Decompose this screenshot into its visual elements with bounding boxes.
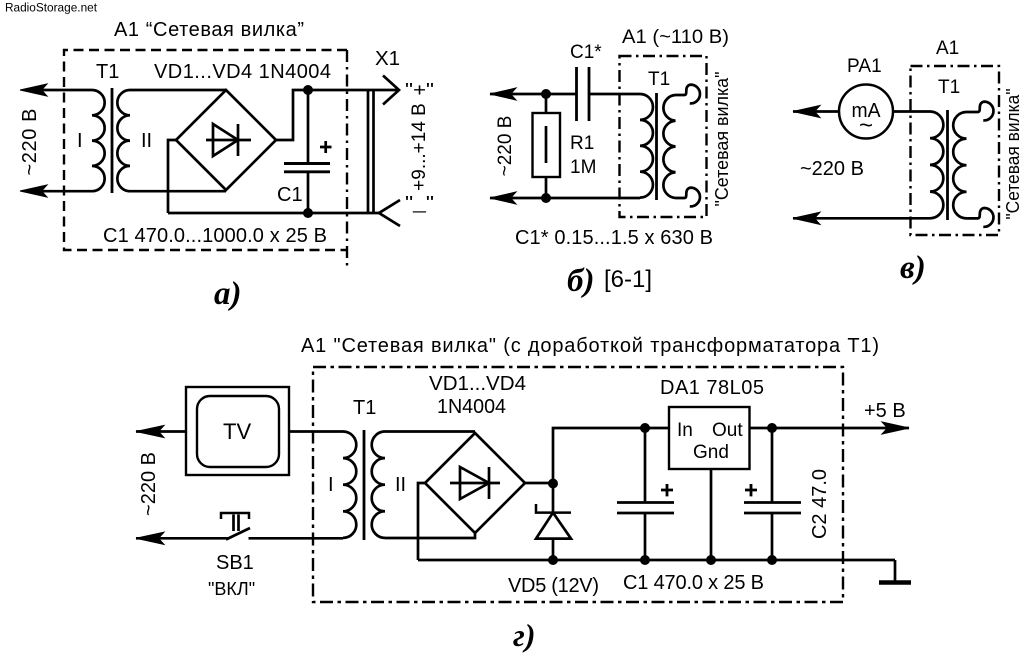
svg-text:I: I — [77, 130, 83, 152]
svg-text:"_": "_" — [405, 193, 434, 214]
svg-text:C1* 0.15...1.5 x 630 В: C1* 0.15...1.5 x 630 В — [515, 227, 713, 249]
svg-text:А1 (~110 В): А1 (~110 В) — [622, 27, 729, 48]
bridge diode symbol (circuit a) — [206, 124, 251, 156]
svg-text:VD1...VD4 1N4004: VD1...VD4 1N4004 — [154, 61, 331, 83]
svg-text:в): в) — [900, 250, 926, 286]
svg-text:А1 “Сетевая вилка”: А1 “Сетевая вилка” — [114, 19, 304, 41]
junction dot bridge plus node — [548, 479, 558, 489]
wire bridge plus: right corner to VD5 node — [525, 482, 553, 485]
svg-text:~220 В: ~220 В — [138, 452, 160, 516]
wire bottom to switch — [136, 537, 229, 540]
connector X1 boundary line (dash-dot) — [346, 50, 348, 268]
transformer T1 core (circuit g) — [363, 430, 366, 540]
secondary bottom hook (circuit b) — [676, 188, 700, 207]
junction dot top (circuit b) — [541, 89, 551, 99]
svg-text:II: II — [395, 474, 406, 496]
wire bridge plus output: right corner up to top rail — [276, 90, 308, 140]
svg-text:"+": "+" — [405, 80, 434, 100]
junction dot minus node (circuit a) — [303, 208, 313, 218]
svg-text:+9...+14 В: +9...+14 В — [409, 103, 430, 191]
wire secondary bottom to bridge — [385, 532, 475, 538]
svg-text:г): г) — [513, 617, 535, 653]
svg-text:Out: Out — [712, 420, 743, 441]
transformer T1 secondary winding (circuit v) — [953, 112, 966, 218]
wire bottom rail (circuit b) — [490, 197, 640, 200]
svg-text:RadioStorage.net: RadioStorage.net — [5, 1, 98, 15]
ground symbol — [879, 560, 911, 583]
transformer T1 primary winding (circuit g) — [343, 432, 356, 538]
svg-text:T1: T1 — [96, 61, 119, 83]
wire from C1* into box — [589, 93, 640, 96]
plug arrow top (circuit b) — [490, 88, 516, 100]
wire VD5 node up to +5V rail (In side) — [553, 428, 669, 483]
zener diode VD5 — [536, 483, 571, 560]
plug arrow top (circuit a) — [20, 84, 47, 96]
svg-text:"Сетевая вилка": "Сетевая вилка" — [711, 72, 732, 207]
svg-text:1M: 1M — [570, 157, 596, 178]
TV set box — [186, 387, 289, 475]
svg-text:C1 470.0...1000.0 x 25 В: C1 470.0...1000.0 x 25 В — [103, 225, 327, 247]
svg-text:R1: R1 — [570, 133, 594, 154]
svg-text:Gnd: Gnd — [693, 442, 729, 463]
switch SB1 (push button) — [221, 513, 250, 540]
svg-text:C1: C1 — [277, 184, 303, 206]
wire bridge minus output: left corner down to bottom rail — [168, 140, 176, 213]
wire bottom rail (circuit a) — [168, 212, 379, 215]
svg-text:X1: X1 — [375, 47, 400, 70]
plug arrow top (circuit g) — [136, 425, 164, 437]
svg-text:+5 В: +5 В — [864, 400, 906, 422]
capacitor C1 (circuit g) — [617, 428, 674, 560]
resistor R1 (circuit b) — [533, 94, 561, 198]
diode bridge diamond (circuit g) — [425, 433, 525, 533]
svg-text:а): а) — [214, 276, 242, 312]
junction dot bottom (circuit b) — [541, 193, 551, 203]
enclosure box A1 (dash-dot) circuit b — [620, 56, 707, 217]
connector X1 contact bars — [368, 90, 374, 213]
transformer T1 secondary winding II (circuit g) — [372, 432, 385, 538]
wire TV to transformer (top) — [289, 430, 343, 433]
milliammeter PA1 circle — [839, 85, 893, 139]
output arrow +5 В — [882, 422, 909, 434]
svg-text:C1*: C1* — [570, 42, 602, 63]
svg-text:II: II — [141, 130, 152, 152]
wire arrow to TV — [136, 430, 186, 433]
X1 minus pin socket (open, left) — [379, 200, 400, 226]
wire Gnd pin down — [710, 469, 713, 560]
svg-text:C1 470.0 x 25 В: C1 470.0 x 25 В — [623, 572, 764, 594]
secondary top hook (circuit v) — [967, 102, 994, 121]
svg-text:А1 "Сетевая вилка" (с доработк: А1 "Сетевая вилка" (с доработкой трансфо… — [301, 335, 879, 357]
svg-text:I: I — [328, 474, 334, 496]
wire top rail (circuit b) — [490, 93, 576, 96]
capacitor C1* plates — [577, 67, 590, 121]
transformer T1 primary winding (circuit b) — [640, 94, 653, 198]
wire bottom rail (circuit v) — [793, 217, 930, 220]
plug arrow bottom (circuit b) — [490, 192, 516, 204]
svg-text:VD1...VD4: VD1...VD4 — [429, 373, 526, 395]
plus sign of C1 (circuit a) — [320, 141, 332, 153]
svg-text:VD5 (12V): VD5 (12V) — [508, 575, 599, 597]
junction dot Gnd bottom — [706, 555, 716, 565]
svg-text:~220 В: ~220 В — [19, 109, 41, 176]
capacitor C1 (circuit a, polarized) — [284, 90, 330, 213]
transformer T1 secondary winding (circuit b) — [663, 95, 675, 198]
wire bottom minus rail (circuit g) — [418, 559, 895, 562]
enclosure box A1 (dash-dot) circuit v — [911, 66, 1000, 235]
transformer T1 core (circuit v) — [946, 110, 949, 220]
svg-text:[6-1]: [6-1] — [604, 266, 652, 293]
wire arrow to meter — [793, 110, 839, 113]
junction dot C1 top — [640, 423, 650, 433]
junction dot C2 bottom — [767, 555, 777, 565]
svg-text:T1: T1 — [938, 77, 960, 98]
svg-text:C2 47.0: C2 47.0 — [809, 469, 831, 539]
svg-text:TV: TV — [223, 419, 251, 444]
plug arrow top (circuit v) — [793, 105, 820, 117]
plug arrow bottom (circuit g) — [136, 532, 164, 544]
svg-text:~220 В: ~220 В — [800, 158, 864, 180]
enclosure box A1 (dashed) circuit a — [64, 50, 347, 250]
wire top plus rail to X1 — [308, 89, 399, 92]
bridge diode symbol (circuit g) — [450, 467, 500, 499]
plus sign of C2 — [745, 484, 757, 496]
secondary bottom hook (circuit v) — [967, 208, 994, 227]
svg-text:А1: А1 — [936, 38, 959, 59]
svg-text:1N4004: 1N4004 — [437, 396, 506, 418]
wire Out pin to +5V arrow — [750, 427, 910, 430]
wire secondary top to bridge — [385, 430, 475, 433]
svg-text:In: In — [677, 420, 693, 441]
svg-text:"Сетевая вилка": "Сетевая вилка" — [1002, 89, 1023, 220]
svg-text:T1: T1 — [353, 397, 376, 419]
X1 plus pin arrow (open, right) — [383, 76, 399, 105]
transformer T1 primary winding (circuit v) — [930, 112, 943, 219]
wire switch to transformer — [249, 537, 344, 540]
plus sign of C1 (circuit g) — [661, 484, 673, 496]
svg-text:РА1: РА1 — [847, 56, 882, 77]
junction dot C2 top — [767, 423, 777, 433]
svg-text:"ВКЛ": "ВКЛ" — [208, 579, 255, 599]
junction dot plus node (circuit a) — [303, 85, 313, 95]
junction dot C1 bottom — [640, 555, 650, 565]
diode bridge VD1...VD4 diamond (circuit a) — [176, 90, 276, 190]
voltage regulator DA1 78L05 box — [669, 407, 750, 469]
transformer T1 primary winding I with top/bottom wires — [42, 90, 105, 191]
svg-text:T1: T1 — [648, 69, 670, 90]
enclosure box A1 (dash-dot) circuit g — [313, 367, 843, 602]
svg-text:SB1: SB1 — [216, 552, 254, 574]
svg-text:DA1 78L05: DA1 78L05 — [660, 377, 764, 399]
plug arrow bottom (circuit a) — [20, 185, 47, 197]
plug arrow bottom (circuit v) — [793, 212, 820, 224]
capacitor C2 (circuit g) — [744, 428, 801, 560]
secondary top hook (circuit b) — [676, 85, 700, 104]
transformer T1 secondary winding II with top/bottom wires — [117, 90, 226, 191]
svg-text:~220 В: ~220 В — [495, 116, 516, 177]
wire bridge minus: left corner down to bottom rail — [418, 483, 425, 560]
transformer T1 core (circuit b) — [655, 93, 658, 200]
svg-text:~: ~ — [859, 112, 873, 139]
wire meter to transformer — [893, 110, 930, 113]
junction dot VD5 bottom — [548, 555, 558, 565]
svg-text:б): б) — [567, 263, 594, 299]
transformer T1 core (circuit a) — [111, 88, 114, 193]
